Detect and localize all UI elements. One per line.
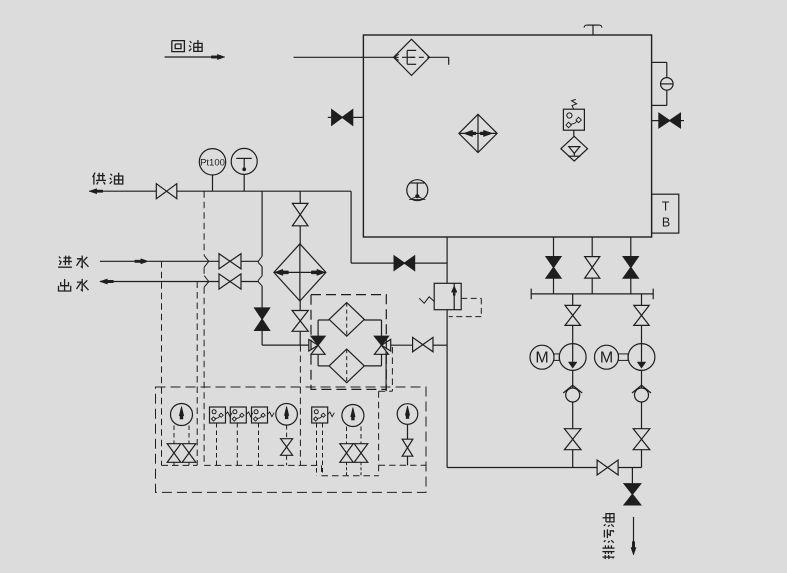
svg-text:M: M xyxy=(600,350,613,367)
svg-text:M: M xyxy=(535,350,548,367)
svg-text:T: T xyxy=(662,200,670,214)
svg-text:B: B xyxy=(662,216,670,230)
svg-text:Pt100: Pt100 xyxy=(200,158,225,169)
